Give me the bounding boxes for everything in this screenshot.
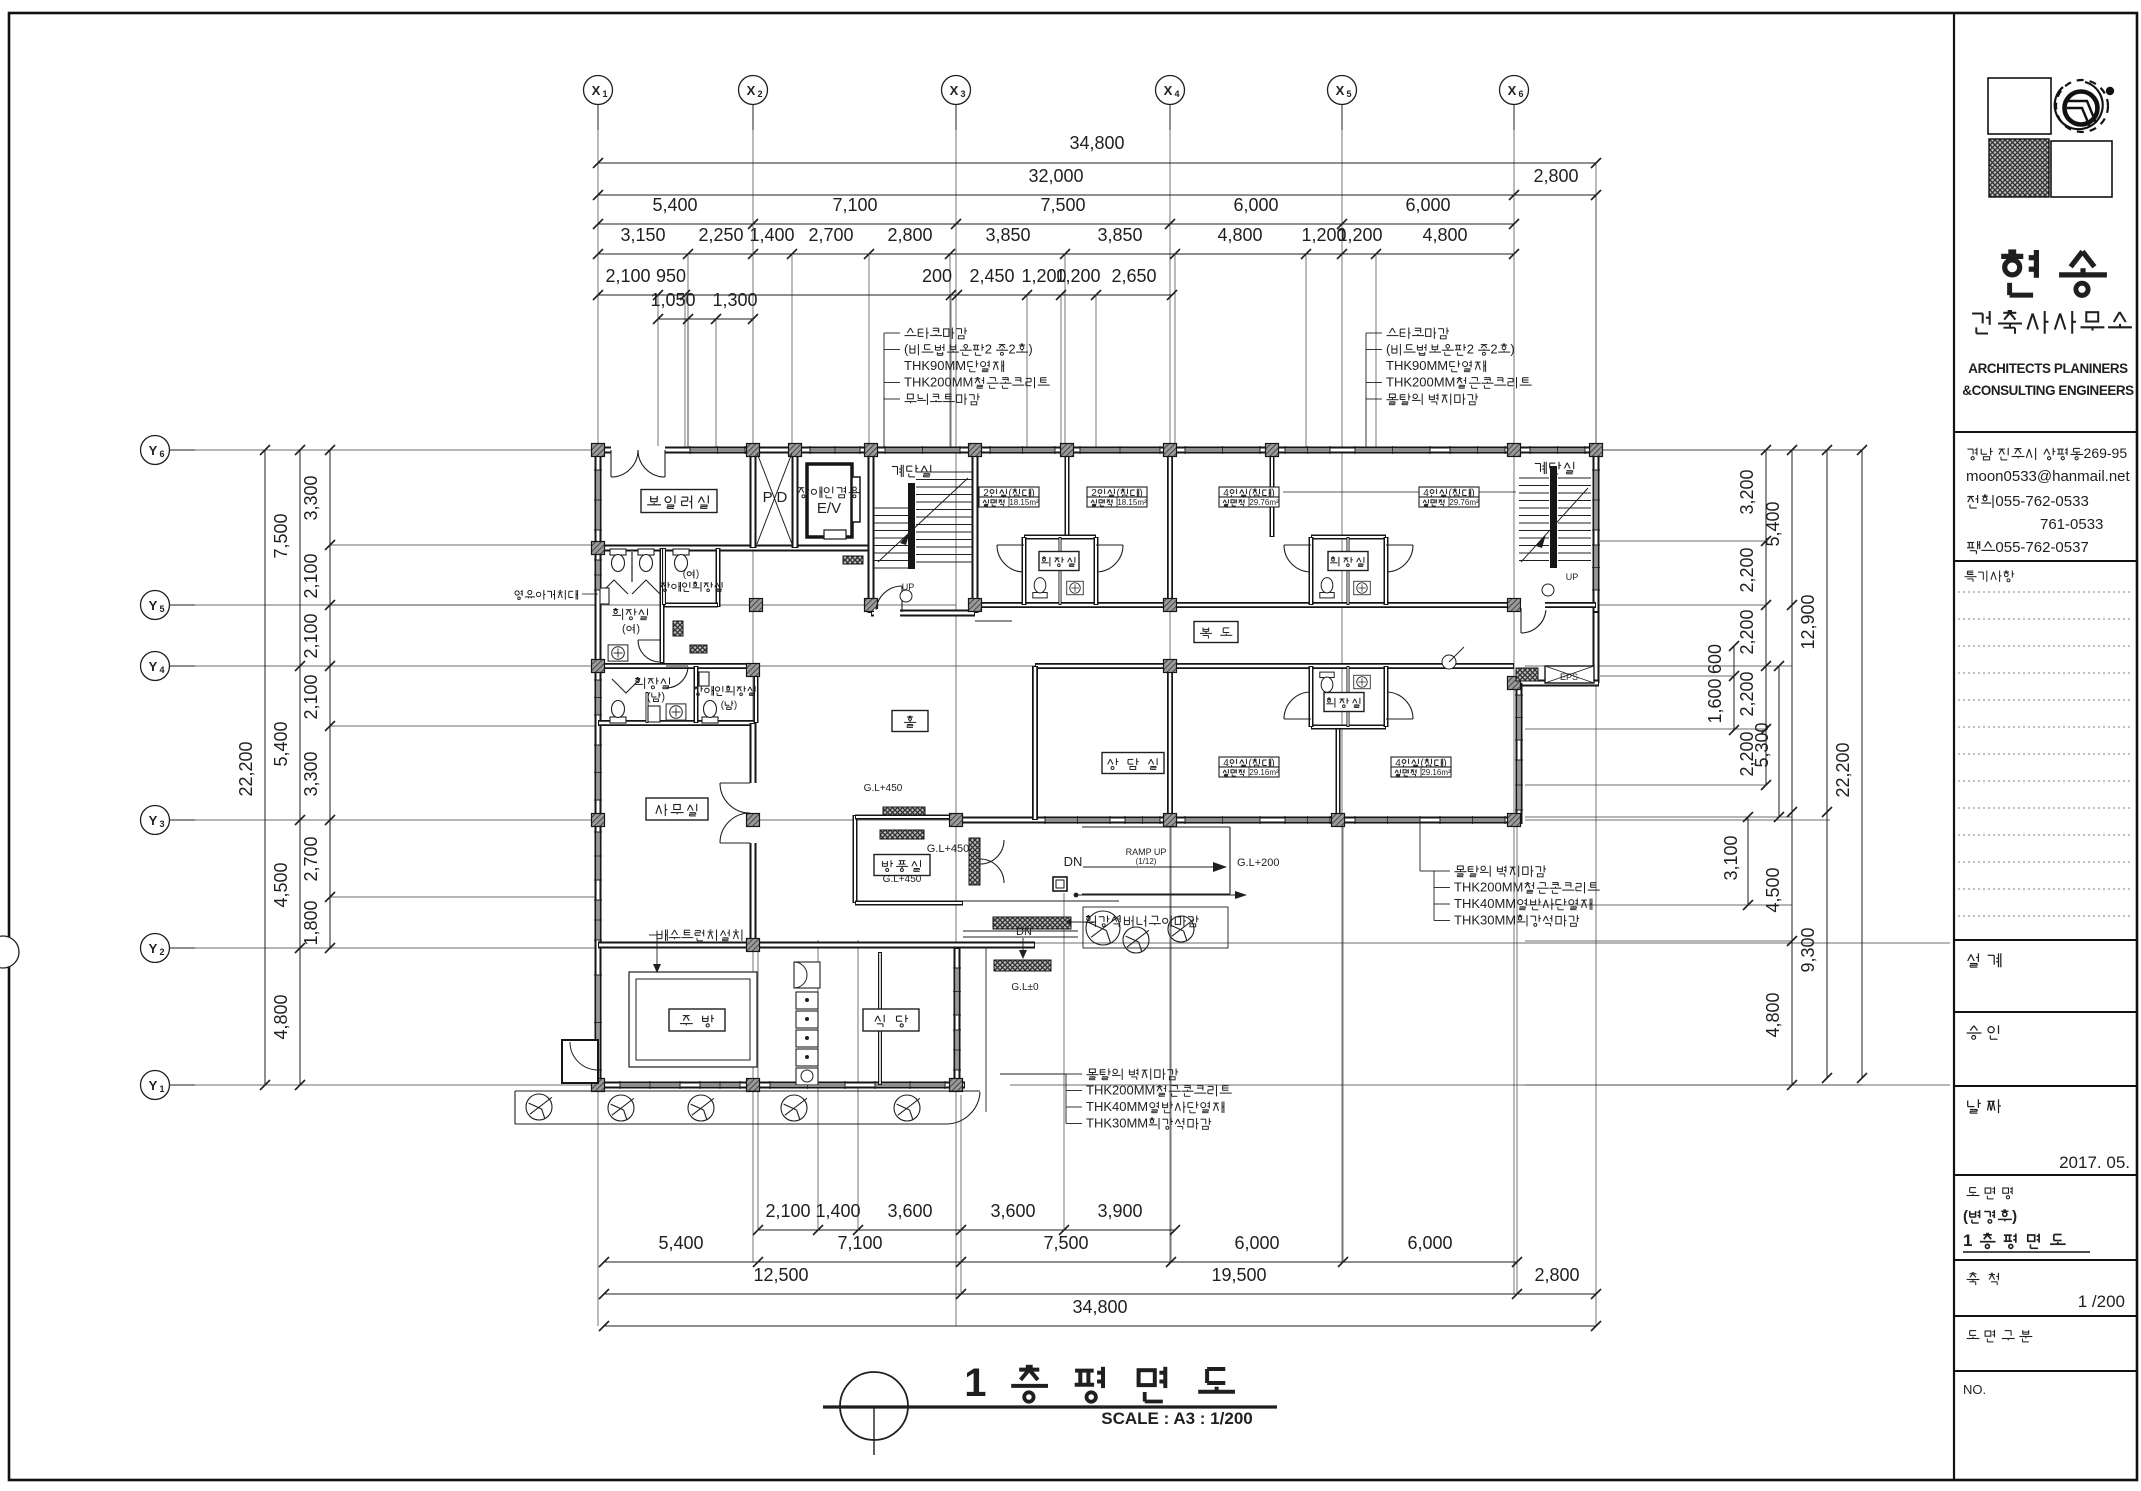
title block special notes header	[1965, 571, 2015, 582]
title block field scale	[1967, 1273, 1999, 1285]
disabled toilet women label	[683, 569, 699, 580]
svg-text:34,800: 34,800	[1072, 1297, 1127, 1317]
title block separator 1	[1954, 431, 2137, 433]
left stair room bottom wall	[871, 610, 975, 617]
svg-text:2,250: 2,250	[698, 225, 743, 245]
corridor south wall y=666 right part	[1035, 663, 1514, 669]
svg-text:P D: P D	[763, 489, 788, 506]
title block logo circle	[2056, 80, 2108, 132]
P/D east wall	[792, 450, 799, 548]
dimension row sub-sub dims (top)	[598, 294, 1172, 296]
svg-text:NO.: NO.	[1963, 1382, 1986, 1397]
svg-text:7,500: 7,500	[271, 513, 291, 558]
windbreak room (방풍실) walls	[853, 815, 858, 903]
room label E/V	[798, 487, 860, 498]
driveway kerb	[515, 1090, 980, 1092]
grid line Y6	[169, 449, 598, 451]
svg-text:3,100: 3,100	[1721, 835, 1741, 880]
svg-text:200: 200	[922, 266, 952, 286]
svg-text:18.15m²: 18.15m²	[1009, 498, 1039, 507]
grid bubble Y6	[141, 436, 170, 465]
room1/room2 divider x=1067	[1065, 450, 1070, 537]
wall X2 between boiler room and P/D	[750, 450, 757, 548]
drain trench note	[657, 930, 742, 941]
title block separator 2	[1954, 560, 2137, 562]
title block separator 4	[1954, 1011, 2137, 1013]
svg-text:Y: Y	[149, 941, 158, 956]
hall entrance mats G.L+450	[883, 807, 925, 815]
title block separator 7	[1954, 1259, 2137, 1261]
dining east wall	[954, 948, 961, 1089]
svg-text:2,200: 2,200	[1737, 547, 1757, 592]
svg-text:G.L±0: G.L±0	[1011, 982, 1039, 993]
svg-text:): )	[661, 691, 665, 703]
svg-text:2: 2	[159, 947, 164, 957]
dimension row sub dims (top)	[598, 253, 1514, 255]
granite finish label with tree symbols	[1086, 911, 1120, 945]
svg-text:055-762-0537: 055-762-0537	[1995, 539, 2088, 556]
structural columns (hatched)	[592, 444, 605, 457]
svg-text:Y: Y	[149, 1078, 158, 1093]
pocket toilets fixtures	[1033, 578, 1047, 598]
svg-text:1,200: 1,200	[1055, 266, 1100, 286]
pocket 1 door arcs	[997, 545, 1023, 572]
svg-text:18.15m²: 18.15m²	[1117, 498, 1147, 507]
room5/room6 divider x=1338	[1336, 727, 1341, 820]
dimension column right 12,900/9,300	[1826, 450, 1828, 1078]
upper toilet pocket 2	[1311, 535, 1386, 540]
svg-text:): )	[734, 700, 737, 711]
svg-text:29.76m²: 29.76m²	[1449, 498, 1479, 507]
svg-text:7,100: 7,100	[837, 1233, 882, 1253]
svg-text:1,050: 1,050	[650, 290, 695, 310]
windbreak room label	[874, 855, 930, 876]
svg-text:6,000: 6,000	[1407, 1233, 1452, 1253]
title block company name	[2001, 250, 2107, 295]
room label 4-bed room 5	[1219, 757, 1279, 767]
dimension row 1,050 / 1,300 (top)	[658, 318, 753, 320]
grid bubble Y1	[141, 1071, 170, 1100]
svg-text:3,900: 3,900	[1097, 1201, 1142, 1221]
svg-text:THK30MM: THK30MM	[1454, 913, 1516, 928]
dimension column right 5,300	[1778, 666, 1780, 817]
corridor hall circle symbol	[1442, 655, 1456, 669]
grid bubble X1	[584, 76, 613, 105]
right stair treads	[1519, 477, 1549, 479]
svg-text:1,400: 1,400	[749, 225, 794, 245]
office east wall (X2)	[750, 723, 757, 945]
grid bubble Y2	[141, 934, 170, 963]
elevator side rails	[852, 477, 860, 522]
svg-text:UP: UP	[1566, 572, 1579, 582]
svg-text:2: 2	[1467, 342, 1474, 357]
svg-text:3,600: 3,600	[990, 1201, 1035, 1221]
svg-text:G.L+450: G.L+450	[927, 843, 970, 855]
entrance porch ramp slab	[1082, 826, 1230, 828]
corridor label	[1194, 622, 1238, 643]
kitchen equipment column	[796, 992, 818, 1009]
title block address	[1967, 445, 2127, 461]
svg-text:THK90MM: THK90MM	[904, 358, 966, 373]
dimension column right sub dims	[1765, 450, 1767, 785]
svg-text:2,800: 2,800	[887, 225, 932, 245]
svg-text:4,500: 4,500	[1763, 867, 1783, 912]
wall X4 between counsel and room5	[1167, 666, 1173, 820]
svg-text:3: 3	[159, 819, 164, 829]
svg-text:1: 1	[602, 89, 607, 99]
svg-text:7,100: 7,100	[832, 195, 877, 215]
svg-text:2,100: 2,100	[301, 674, 321, 719]
svg-text:(: (	[647, 691, 651, 703]
room label 2-bed room 1	[979, 487, 1039, 497]
room label stair left	[892, 465, 931, 477]
room3/room4 divider x=1272	[1270, 450, 1275, 537]
svg-text:G.L+450: G.L+450	[864, 783, 903, 794]
svg-text:4,500: 4,500	[271, 862, 291, 907]
svg-text:3,600: 3,600	[887, 1201, 932, 1221]
exterior south wall Y1	[594, 1082, 965, 1089]
svg-text:2,700: 2,700	[301, 836, 321, 881]
wall notes top right (stucco finish stack)	[1387, 328, 1450, 339]
svg-text:X: X	[950, 83, 959, 98]
svg-text:THK200MM: THK200MM	[1454, 880, 1523, 895]
grid bubble Y4	[141, 652, 170, 681]
grid line X3	[955, 104, 957, 1326]
svg-text:1,300: 1,300	[712, 290, 757, 310]
ramp double arrow line	[1075, 894, 1243, 896]
title block separator 6	[1954, 1174, 2137, 1176]
dimension column right 3,100	[1747, 817, 1749, 905]
svg-text:2,100: 2,100	[301, 613, 321, 658]
svg-text:(: (	[1386, 342, 1391, 357]
svg-text:): )	[1510, 342, 1514, 357]
svg-text:Y: Y	[149, 443, 158, 458]
svg-text:5,400: 5,400	[658, 1233, 703, 1253]
title block left border	[1953, 13, 1955, 1480]
right dimension extension lines	[1600, 540, 1766, 542]
svg-text:G.L+450: G.L+450	[883, 874, 922, 885]
svg-text:4: 4	[159, 665, 164, 675]
office label	[646, 798, 708, 820]
svg-text:2: 2	[1490, 342, 1497, 357]
svg-text:3,150: 3,150	[620, 225, 665, 245]
svg-text:4,800: 4,800	[1217, 225, 1262, 245]
title block field approval	[1967, 1025, 1999, 1039]
title block dotted rule lines	[1958, 591, 2133, 593]
grid bubble X3	[942, 76, 971, 105]
disabled toilet men label	[694, 686, 756, 696]
svg-text:DN: DN	[1064, 854, 1083, 869]
svg-text:2,800: 2,800	[1533, 166, 1578, 186]
kitchen inner work area	[629, 972, 757, 1067]
svg-text:5,400: 5,400	[1763, 501, 1783, 546]
svg-text:X: X	[1164, 83, 1173, 98]
office door arcs	[720, 783, 750, 813]
svg-text:22,200: 22,200	[1833, 742, 1853, 797]
E/V east wall / stair west wall	[868, 450, 875, 613]
grid bubble X6	[1500, 76, 1529, 105]
men toilet block bottom wall y=723	[598, 720, 756, 726]
svg-text:1,800: 1,800	[301, 900, 321, 945]
hall floor mats	[673, 621, 683, 636]
women toilet fixtures	[610, 549, 626, 572]
room label 4-bed room 4	[1419, 487, 1479, 497]
title block field date	[1968, 1099, 2001, 1113]
top dimension extension lines	[687, 254, 689, 447]
svg-text:2,800: 2,800	[1534, 1265, 1579, 1285]
svg-text:3: 3	[960, 89, 965, 99]
wall notes bottom center	[1087, 1069, 1179, 1080]
toilet labels pockets	[1039, 552, 1079, 571]
kitchen west annex	[562, 1040, 598, 1083]
grid line Y2	[169, 947, 598, 949]
svg-text:7,500: 7,500	[1043, 1233, 1088, 1253]
dining west wall	[878, 952, 882, 1085]
svg-text:12,500: 12,500	[753, 1265, 808, 1285]
svg-text:THK200MM: THK200MM	[904, 375, 973, 390]
left stair treads	[873, 507, 910, 509]
svg-text:THK200MM: THK200MM	[1086, 1083, 1155, 1098]
svg-text:): )	[696, 569, 699, 580]
P/D shaft cross	[757, 453, 792, 544]
left stair room east wall	[972, 450, 979, 613]
svg-text:4,800: 4,800	[1422, 225, 1467, 245]
title block separator 9	[1954, 1370, 2137, 1372]
svg-text:(: (	[1963, 1208, 1968, 1225]
dining label	[863, 1009, 919, 1031]
dimension row 34,800 (top)	[598, 162, 1596, 164]
title block separator 8	[1954, 1315, 2137, 1317]
hall label	[892, 711, 928, 732]
porch column	[1053, 877, 1067, 891]
svg-text:2: 2	[985, 342, 992, 357]
grid bubble Y3	[141, 806, 170, 835]
svg-text:1,600: 1,600	[1705, 678, 1725, 723]
svg-text:5,400: 5,400	[652, 195, 697, 215]
grid line Y4	[169, 665, 598, 667]
boiler/PD/EV bottom wall y=548	[598, 545, 871, 552]
svg-text:SCALE : A3 : 1/200: SCALE : A3 : 1/200	[1101, 1409, 1252, 1428]
windbreak east door strip	[969, 838, 980, 885]
women toilet block: stall wall x=662	[660, 548, 665, 663]
svg-text:5,400: 5,400	[271, 721, 291, 766]
upper toilet pocket 1	[1024, 535, 1096, 540]
svg-text:7,500: 7,500	[1040, 195, 1085, 215]
svg-text:X: X	[747, 83, 756, 98]
svg-text:1: 1	[964, 1361, 992, 1405]
svg-text:&CONSULTING ENGINEERS: &CONSULTING ENGINEERS	[1962, 383, 2134, 398]
svg-text:3,200: 3,200	[1737, 469, 1757, 514]
grid line X4	[1169, 104, 1171, 1262]
svg-text:2,700: 2,700	[808, 225, 853, 245]
svg-text:THK200MM: THK200MM	[1386, 375, 1455, 390]
svg-text:X: X	[1508, 83, 1517, 98]
svg-text:34,800: 34,800	[1069, 133, 1124, 153]
svg-text:1,400: 1,400	[815, 1201, 860, 1221]
svg-text:DN: DN	[1016, 926, 1032, 938]
svg-text:moon0533@hanmail.net: moon0533@hanmail.net	[1966, 468, 2130, 485]
title block separator 5	[1954, 1085, 2137, 1087]
exterior east wall lower rooms band	[1516, 683, 1523, 824]
dimension row 2,100/1,400/3,600/3,600/3,900 (bottom)	[758, 1229, 1175, 1231]
bottom dimension extension lines	[757, 940, 759, 1230]
svg-text:055-762-0533: 055-762-0533	[1995, 493, 2088, 510]
svg-text:29.76m²: 29.76m²	[1249, 498, 1279, 507]
room label 4-bed room 3	[1219, 487, 1279, 497]
left dimension extension lines	[330, 544, 598, 546]
kitchen label	[669, 1009, 725, 1031]
windows on north wall	[690, 449, 745, 451]
pocket 3 door arcs	[1284, 692, 1310, 719]
room label stair right	[1535, 462, 1574, 474]
svg-text:2,450: 2,450	[969, 266, 1014, 286]
svg-text:19,500: 19,500	[1211, 1265, 1266, 1285]
dimension row grid spans 5,400/7,100/7,500/6,000/6,000 (top)	[598, 223, 1514, 225]
svg-text:THK40MM: THK40MM	[1454, 896, 1516, 911]
svg-text:269-95: 269-95	[2084, 445, 2128, 461]
svg-text:5: 5	[1346, 89, 1351, 99]
svg-text:4: 4	[1174, 89, 1179, 99]
svg-text:6: 6	[1518, 89, 1523, 99]
svg-text:2: 2	[1008, 342, 1015, 357]
svg-text:3,850: 3,850	[985, 225, 1030, 245]
svg-text:6,000: 6,000	[1234, 1233, 1279, 1253]
room label boiler room	[641, 490, 717, 513]
svg-text:4,800: 4,800	[271, 994, 291, 1039]
svg-text:600: 600	[1705, 644, 1725, 674]
svg-text:1,200: 1,200	[1337, 225, 1382, 245]
title block field design	[1968, 953, 2001, 967]
svg-text:761-0533: 761-0533	[2040, 516, 2103, 533]
svg-text:6,000: 6,000	[1233, 195, 1278, 215]
windows on south wall lower band (Y3)	[1045, 819, 1110, 821]
kitchen/dining north wall y=945	[598, 942, 1035, 949]
drawing title underline	[823, 1405, 1277, 1408]
grid line X5	[1341, 104, 1343, 1262]
windows on east walls	[1595, 470, 1597, 530]
title block logo squares	[1988, 78, 2051, 134]
svg-text:2: 2	[757, 89, 762, 99]
grid line Y5	[169, 604, 598, 606]
grid bubble X4	[1156, 76, 1185, 105]
drawing title text 1층평면도	[964, 1361, 1235, 1405]
dimension column right 22,200	[1861, 450, 1863, 1078]
title block separator 3	[1954, 939, 2137, 941]
office door opening on east wall	[749, 783, 757, 843]
svg-text:THK90MM: THK90MM	[1386, 358, 1448, 373]
grid line X2	[752, 104, 754, 1262]
partial bubble at left page edge	[0, 936, 19, 968]
baby seat fixture	[600, 588, 609, 604]
dimension row 12,500/19,500/2,800 (bottom)	[604, 1293, 1596, 1295]
svg-text:RAMP UP: RAMP UP	[1126, 847, 1167, 857]
svg-text:6,000: 6,000	[1405, 195, 1450, 215]
elevator E/V car	[807, 464, 852, 537]
grid line X6	[1513, 104, 1515, 1294]
svg-text:(: (	[622, 623, 626, 635]
svg-text:9,300: 9,300	[1798, 927, 1818, 972]
svg-text:3,850: 3,850	[1097, 225, 1142, 245]
svg-text:UP: UP	[902, 582, 915, 592]
tree symbols below building	[526, 1094, 552, 1120]
svg-text:2,650: 2,650	[1111, 266, 1156, 286]
svg-text:EPS: EPS	[1560, 672, 1578, 682]
dimension column right 5,400/4,500/4,800	[1791, 450, 1793, 1085]
windows on dining east wall	[956, 968, 958, 1015]
women disabled toilet walls	[716, 548, 721, 607]
grid bubble Y5	[141, 591, 170, 620]
wall notes top left (stucco finish stack)	[905, 328, 968, 339]
exterior north wall	[594, 447, 1599, 454]
stair block south wall / EPS east wall	[1593, 612, 1600, 683]
dimension column 22,200 (left)	[264, 450, 266, 1085]
svg-text:29.16m²: 29.16m²	[1421, 768, 1451, 777]
dimension column 7,500/5,400/4,500/4,800 (left)	[299, 450, 301, 1085]
grid bubble X2	[739, 76, 768, 105]
dimension row 5,400/7,100/7,500/6,000/6,000 (bottom)	[604, 1261, 1517, 1263]
svg-text:3,300: 3,300	[301, 751, 321, 796]
women toilet stall divider	[631, 552, 633, 582]
svg-text:(: (	[904, 342, 909, 357]
svg-text:5: 5	[159, 604, 164, 614]
wall notes right middle	[1455, 866, 1547, 877]
boiler room double entry door	[611, 446, 665, 454]
room label 2-bed room 2	[1087, 487, 1147, 497]
exterior west wall	[595, 447, 602, 1089]
exterior east wall upper (stair block)	[1593, 450, 1600, 612]
room label 4-bed room 6	[1391, 757, 1451, 767]
svg-text:Y: Y	[149, 659, 158, 674]
svg-text:THK40MM: THK40MM	[1086, 1099, 1148, 1114]
entrance steps	[993, 917, 1071, 929]
svg-text:Y: Y	[149, 598, 158, 613]
svg-text:29.16m²: 29.16m²	[1249, 768, 1279, 777]
counsel room label	[1102, 753, 1164, 774]
drawing title circle symbol	[840, 1372, 908, 1440]
grid line right edge	[1595, 163, 1597, 1326]
lower toilet pocket 3	[1311, 725, 1386, 730]
svg-text:12,900: 12,900	[1798, 594, 1818, 649]
svg-text:ARCHITECTS PLANINERS: ARCHITECTS PLANINERS	[1968, 361, 2128, 376]
right stair door	[1521, 602, 1545, 608]
pocket 2 door arcs	[1284, 545, 1310, 572]
grid line X1	[597, 104, 599, 1326]
grid bubble X5	[1328, 76, 1357, 105]
svg-text:5,300: 5,300	[1752, 722, 1772, 767]
svg-text:G.L+200: G.L+200	[1237, 857, 1280, 869]
baby holder note	[515, 590, 578, 600]
svg-text:THK30MM: THK30MM	[1086, 1116, 1148, 1131]
women toilet label	[612, 609, 647, 620]
EPS bottom wall	[1510, 680, 1599, 687]
svg-text:): )	[636, 623, 640, 635]
Y4 wall left part (toilets men top)	[598, 663, 756, 669]
svg-text:2,100: 2,100	[605, 266, 650, 286]
svg-text:22,200: 22,200	[236, 741, 256, 796]
windows on west wall	[597, 470, 599, 530]
svg-text:): )	[1028, 342, 1032, 357]
svg-text:): )	[2012, 1208, 2017, 1225]
windows on Y1 wall	[620, 1084, 680, 1086]
svg-text:(1/12): (1/12)	[1136, 857, 1157, 866]
svg-text:X: X	[592, 83, 601, 98]
svg-text:E/V: E/V	[817, 500, 841, 517]
svg-text:1: 1	[159, 1084, 164, 1094]
dimension row 34,800 (bottom)	[604, 1325, 1596, 1327]
svg-text:1: 1	[1963, 1231, 1973, 1250]
EPS shaft	[1516, 668, 1538, 681]
grid line Y1	[169, 1084, 598, 1086]
